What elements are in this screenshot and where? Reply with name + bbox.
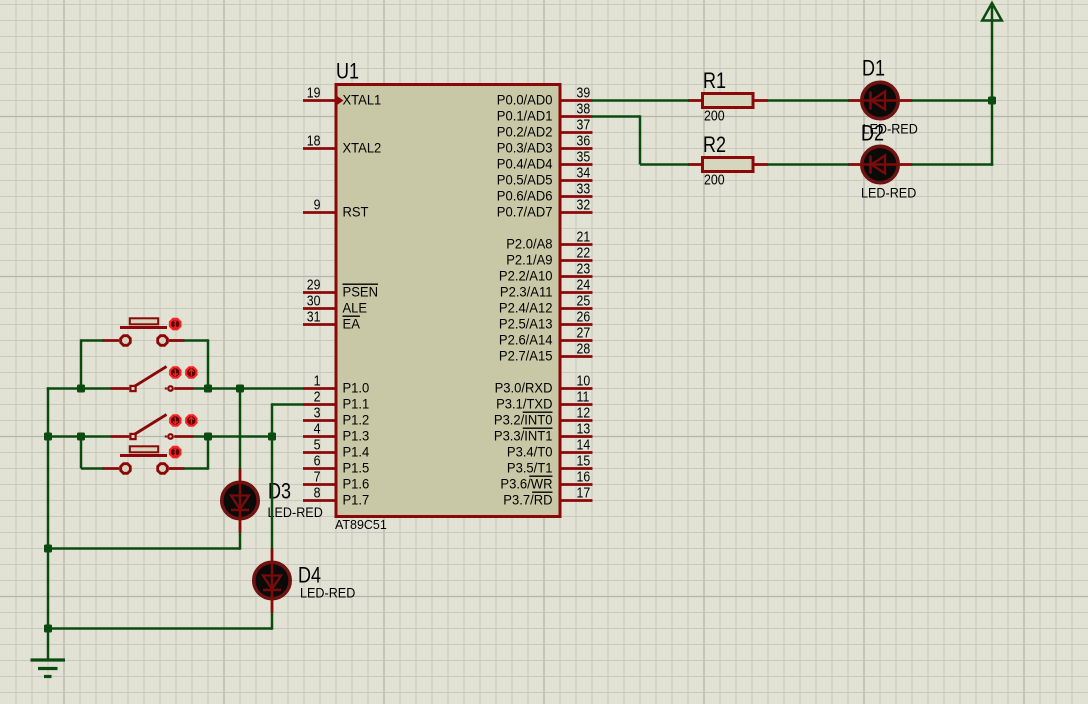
svg-text:1: 1	[314, 374, 321, 390]
wire pin2 horizontal	[272, 403, 303, 406]
pin 2 (P1.1)	[303, 390, 369, 412]
svg-text:12: 12	[577, 406, 591, 422]
svg-text:XTAL1: XTAL1	[343, 91, 382, 107]
pin 33 (P0.6/AD6)	[497, 182, 593, 204]
svg-text:10: 10	[577, 374, 591, 390]
pin 22 (P2.1/A9)	[506, 246, 592, 268]
pin 28 (P2.7/A15)	[499, 342, 593, 364]
led D1	[848, 82, 913, 118]
svg-text:15: 15	[577, 454, 591, 470]
svg-text:XTAL2: XTAL2	[343, 139, 382, 155]
wire pin1 to D3 anode	[239, 389, 242, 469]
wire D2 to power rail	[912, 163, 993, 166]
wire switch2 row left part	[48, 435, 111, 438]
svg-text:35: 35	[577, 150, 591, 166]
svg-text:P0.1/AD1: P0.1/AD1	[497, 107, 553, 123]
wire D1 to power rail	[912, 99, 992, 102]
pin 27 (P2.6/A14)	[499, 326, 593, 348]
svg-text:P1.2: P1.2	[343, 411, 370, 427]
junction	[204, 385, 212, 393]
wire button1 right horizontal	[184, 339, 208, 342]
pin 13 (P3.3/INT1)	[494, 422, 593, 444]
svg-text:LED-RED: LED-RED	[268, 505, 323, 521]
pin 10 (P3.0/RXD)	[495, 374, 593, 396]
svg-text:P2.6/A14: P2.6/A14	[499, 331, 553, 347]
pin 1 (P1.0)	[303, 374, 369, 396]
svg-text:P3.5/T1: P3.5/T1	[507, 459, 553, 475]
svg-text:P1.5: P1.5	[343, 459, 370, 475]
pin 23 (P2.2/A10)	[499, 262, 593, 284]
pin 9 (RST)	[303, 198, 369, 220]
svg-text:21: 21	[577, 230, 591, 246]
svg-text:P0.6/AD6: P0.6/AD6	[497, 187, 553, 203]
pin 37 (P0.2/AD2)	[497, 118, 593, 140]
pin 17 (P3.7/RD)	[503, 486, 592, 508]
svg-text:P0.7/AD7: P0.7/AD7	[497, 203, 553, 219]
pin 26 (P2.5/A13)	[499, 310, 593, 332]
svg-text:P2.4/A12: P2.4/A12	[499, 299, 553, 315]
actuator markers (switch 2)	[170, 415, 196, 425]
svg-text:U1: U1	[336, 58, 359, 83]
svg-text:RST: RST	[343, 203, 369, 219]
svg-text:LED-RED: LED-RED	[300, 586, 355, 602]
pin 18 (XTAL2)	[303, 134, 381, 156]
svg-text:P0.4/AD4: P0.4/AD4	[497, 155, 553, 171]
svg-text:23: 23	[577, 262, 591, 278]
pin 15 (P3.5/T1)	[507, 454, 593, 476]
svg-text:30: 30	[307, 294, 321, 310]
pin 36 (P0.3/AD3)	[497, 134, 593, 156]
svg-text:P1.6: P1.6	[343, 475, 370, 491]
push button 1	[102, 318, 185, 345]
junction	[44, 433, 52, 441]
svg-text:37: 37	[577, 118, 591, 134]
svg-text:P3.4/T0: P3.4/T0	[507, 443, 553, 459]
svg-text:P3.0/RXD: P3.0/RXD	[495, 379, 553, 395]
svg-text:P0.5/AD5: P0.5/AD5	[497, 171, 553, 187]
svg-text:33: 33	[577, 182, 591, 198]
svg-text:11: 11	[577, 390, 590, 406]
junction	[268, 433, 276, 441]
wire ground vertical	[47, 387, 50, 660]
wire button2 left horizontal	[81, 467, 103, 470]
wire pin38 horizontal	[592, 115, 640, 118]
svg-text:P2.5/A13: P2.5/A13	[499, 315, 553, 331]
pin 32 (P0.7/AD7)	[497, 198, 593, 220]
junction	[44, 625, 52, 633]
svg-text:18: 18	[307, 134, 321, 150]
junction	[77, 385, 85, 393]
ground	[31, 660, 66, 677]
svg-text:LED-RED: LED-RED	[861, 185, 916, 201]
pin 6 (P1.5)	[303, 454, 369, 476]
resistor R1	[688, 94, 768, 108]
svg-text:200: 200	[704, 109, 725, 125]
wire D3 cathode vertical	[239, 533, 242, 550]
pin 3 (P1.2)	[303, 406, 369, 428]
pin 14 (P3.4/T0)	[507, 438, 593, 460]
pin 29 (PSEN)	[303, 278, 378, 300]
wire to R2	[640, 163, 689, 166]
svg-text:P1.1: P1.1	[343, 395, 370, 411]
svg-text:36: 36	[577, 134, 591, 150]
pin 39 (P0.0/AD0)	[497, 86, 593, 108]
wire power rail vertical	[991, 6, 994, 166]
power symbol (VCC arrow)	[982, 3, 1002, 21]
svg-text:P0.3/AD3: P0.3/AD3	[497, 139, 553, 155]
wire pin38 vertical	[639, 115, 642, 164]
wire button1 left vertical	[80, 339, 83, 388]
svg-text:4: 4	[314, 422, 321, 438]
svg-text:19: 19	[307, 86, 321, 102]
wire to D4 anode	[271, 437, 274, 549]
svg-text:P2.2/A10: P2.2/A10	[499, 267, 553, 283]
wire R1 to D1	[768, 99, 849, 102]
wire button2 right vertical	[207, 437, 210, 470]
svg-text:P1.4: P1.4	[343, 443, 370, 459]
pin 24 (P2.3/A11)	[500, 278, 593, 300]
pin 8 (P1.7)	[303, 486, 369, 508]
pin 16 (P3.6/WR)	[500, 470, 592, 492]
pin 34 (P0.5/AD5)	[497, 166, 593, 188]
svg-text:P0.0/AD0: P0.0/AD0	[497, 91, 553, 107]
svg-text:P3.1/TXD: P3.1/TXD	[496, 395, 552, 411]
svg-text:EA: EA	[343, 315, 361, 331]
svg-text:14: 14	[577, 438, 591, 454]
svg-text:P3.7/RD: P3.7/RD	[503, 491, 552, 507]
svg-text:27: 27	[577, 326, 591, 342]
svg-text:P0.2/AD2: P0.2/AD2	[497, 123, 553, 139]
wire switch2 row right part	[194, 435, 273, 438]
pin 25 (P2.4/A12)	[499, 294, 593, 316]
wire button1 left horizontal	[81, 339, 103, 342]
wire pin1 row right part	[194, 387, 304, 390]
svg-text:9: 9	[314, 198, 321, 214]
svg-text:32: 32	[577, 198, 591, 214]
led D3	[222, 469, 258, 533]
svg-text:24: 24	[577, 278, 591, 294]
chip U1 body (AT89C51)	[336, 85, 560, 517]
svg-text:P2.3/A11: P2.3/A11	[500, 283, 553, 299]
svg-text:3: 3	[314, 406, 321, 422]
svg-text:8: 8	[314, 486, 321, 502]
svg-text:25: 25	[577, 294, 591, 310]
wire D4 cathode vertical	[271, 613, 274, 630]
svg-text:P3.3/INT1: P3.3/INT1	[494, 427, 553, 443]
junction	[204, 433, 212, 441]
svg-text:R1: R1	[703, 68, 726, 93]
wire pin2 vertical	[271, 403, 274, 436]
svg-text:P3.2/INT0: P3.2/INT0	[494, 411, 553, 427]
svg-text:P3.6/WR: P3.6/WR	[500, 475, 552, 491]
svg-text:AT89C51: AT89C51	[335, 517, 387, 532]
svg-text:2: 2	[314, 390, 321, 406]
pin 30 (ALE)	[303, 294, 367, 316]
pin 35 (P0.4/AD4)	[497, 150, 593, 172]
actuator markers (switch 1)	[170, 367, 196, 377]
svg-text:34: 34	[577, 166, 591, 182]
svg-text:38: 38	[577, 102, 591, 118]
wire button2 left vertical	[80, 437, 83, 469]
svg-text:39: 39	[577, 86, 591, 102]
actuator marker (button 2)	[170, 447, 180, 457]
svg-text:13: 13	[577, 422, 591, 438]
led D4	[254, 549, 290, 613]
wire pin39 to R1	[592, 99, 689, 102]
switch 1 (SPST)	[111, 367, 194, 392]
pin 11 (P3.1/TXD)	[496, 390, 592, 412]
pin 7 (P1.6)	[303, 470, 369, 492]
pin 31 (EA)	[303, 310, 361, 332]
svg-text:22: 22	[577, 246, 591, 262]
wire D4 cathode to ground rail	[48, 627, 272, 630]
svg-text:ALE: ALE	[343, 299, 368, 315]
junction	[77, 433, 85, 441]
junction	[988, 97, 996, 105]
svg-text:P1.0: P1.0	[343, 379, 370, 395]
svg-text:28: 28	[577, 342, 591, 358]
svg-text:PSEN: PSEN	[343, 283, 379, 299]
pin 5 (P1.4)	[303, 438, 369, 460]
svg-text:P2.7/A15: P2.7/A15	[499, 347, 553, 363]
svg-text:7: 7	[314, 470, 321, 486]
pin 12 (P3.2/INT0)	[494, 406, 593, 428]
svg-text:200: 200	[704, 173, 725, 189]
svg-text:R2: R2	[703, 132, 726, 157]
led D2	[848, 146, 913, 182]
svg-text:P2.1/A9: P2.1/A9	[506, 251, 552, 267]
switch 2 (SPST)	[111, 415, 194, 440]
wire button1 right vertical	[207, 339, 210, 388]
pin 19 (XTAL1)	[303, 86, 381, 108]
actuator marker (button 1)	[170, 319, 180, 329]
svg-text:P1.7: P1.7	[343, 491, 370, 507]
svg-text:17: 17	[577, 486, 591, 502]
svg-text:29: 29	[307, 278, 321, 294]
pin 4 (P1.3)	[303, 422, 369, 444]
junction	[44, 545, 52, 553]
pin 38 (P0.1/AD1)	[497, 102, 593, 124]
push button 2	[102, 446, 185, 473]
wire D3 cathode to ground rail	[48, 547, 240, 550]
wire pin1 row left part	[47, 387, 111, 390]
svg-text:5: 5	[314, 438, 321, 454]
svg-text:P1.3: P1.3	[343, 427, 370, 443]
svg-text:D2: D2	[861, 121, 884, 146]
pin 21 (P2.0/A8)	[506, 230, 592, 252]
svg-text:P2.0/A8: P2.0/A8	[506, 235, 552, 251]
svg-text:16: 16	[577, 470, 591, 486]
wire R2 to D2	[768, 163, 849, 166]
resistor R2	[688, 158, 768, 172]
svg-text:D4: D4	[298, 562, 321, 587]
svg-text:26: 26	[577, 310, 591, 326]
svg-text:D1: D1	[862, 56, 885, 81]
svg-text:31: 31	[307, 310, 321, 326]
junction	[236, 385, 244, 393]
svg-text:6: 6	[314, 454, 321, 470]
wire button2 right horizontal	[184, 467, 208, 470]
